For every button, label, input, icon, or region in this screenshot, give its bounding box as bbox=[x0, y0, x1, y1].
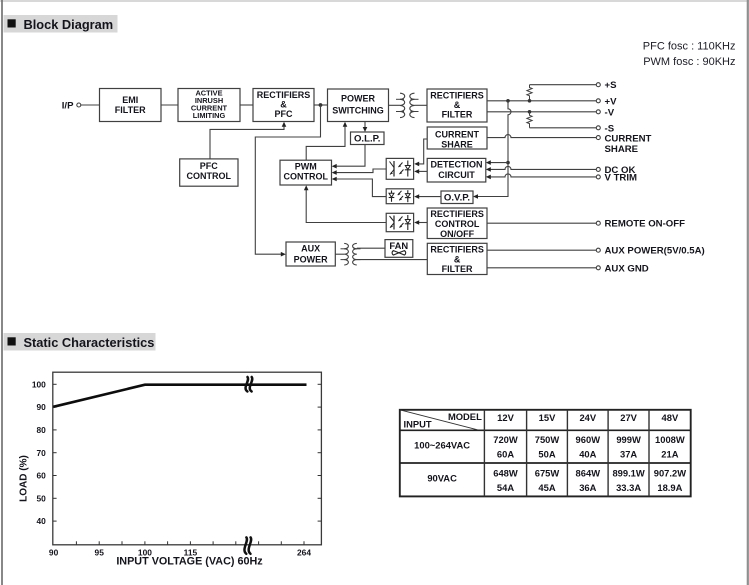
table grid bbox=[400, 410, 691, 497]
graph right border ticks bbox=[318, 384, 322, 521]
svg-text:60A: 60A bbox=[497, 449, 514, 460]
graph curve break mark bbox=[246, 377, 253, 391]
note PFC fosc bbox=[643, 41, 736, 53]
table header 27V bbox=[620, 412, 637, 423]
terminal AUX POWER bbox=[596, 246, 704, 257]
resistor +S sense bbox=[527, 85, 532, 101]
svg-text:RECTIFIERS: RECTIFIERS bbox=[430, 90, 484, 100]
terminal V TRIM bbox=[596, 173, 637, 184]
table row 90VAC bbox=[427, 467, 686, 492]
block aux RECTIFIERS & FILTER bbox=[427, 243, 487, 274]
svg-text:CONTROL: CONTROL bbox=[284, 171, 329, 181]
wire +V rail bbox=[487, 100, 596, 102]
graph x-axis ticks bbox=[76, 541, 304, 545]
svg-text:CONTROL: CONTROL bbox=[435, 219, 480, 229]
wire optocoupler U1 to PWM CONTROL (arrow left) bbox=[332, 169, 387, 175]
svg-text:&: & bbox=[454, 254, 461, 264]
section header: Block Diagram bbox=[4, 15, 118, 33]
svg-text:750W: 750W bbox=[535, 434, 560, 445]
svg-text:54A: 54A bbox=[497, 482, 514, 493]
svg-text:27V: 27V bbox=[620, 412, 637, 423]
svg-text:15V: 15V bbox=[539, 412, 556, 423]
resistor -S sense bbox=[527, 112, 532, 128]
svg-text:907.2W: 907.2W bbox=[654, 467, 686, 478]
svg-text:+V: +V bbox=[605, 96, 618, 107]
transformer T2 primary winding bbox=[341, 243, 349, 265]
block RECTIFIERS & PFC bbox=[253, 89, 314, 122]
wire REMOTE ON-OFF bbox=[487, 222, 596, 224]
svg-text:O.L.P.: O.L.P. bbox=[354, 134, 380, 145]
svg-text:-V: -V bbox=[605, 107, 615, 118]
terminal +V bbox=[596, 96, 617, 107]
section header: Static Characteristics bbox=[4, 333, 156, 351]
wire transformer T2 to FAN bbox=[357, 247, 385, 249]
table row 100-264VAC bbox=[414, 434, 685, 459]
wire sense bus vertical (with hop over -V) bbox=[473, 101, 511, 199]
junction +V/bus bbox=[506, 99, 510, 103]
table header 15V bbox=[539, 412, 556, 423]
block ACTIVE INRUSH CURRENT LIMITING bbox=[178, 88, 240, 121]
svg-text:FILTER: FILTER bbox=[442, 109, 473, 119]
svg-text:40A: 40A bbox=[579, 449, 596, 460]
wire transformer T2 to aux RECTIFIERS & FILTER bbox=[357, 259, 428, 261]
optocoupler U1 (feedback) bbox=[386, 158, 413, 179]
svg-text:960W: 960W bbox=[576, 434, 601, 445]
svg-text:+S: +S bbox=[605, 80, 618, 91]
svg-text:FILTER: FILTER bbox=[442, 264, 473, 274]
terminal DC OK bbox=[596, 165, 635, 176]
svg-text:1008W: 1008W bbox=[655, 434, 685, 445]
svg-text:SWITCHING: SWITCHING bbox=[332, 105, 384, 115]
junction +V/+S bbox=[528, 99, 532, 103]
wire AUX POWER to transformer T2 bbox=[335, 253, 344, 255]
svg-text:40: 40 bbox=[36, 516, 46, 526]
svg-text:LIMITING: LIMITING bbox=[193, 111, 226, 120]
table header 48V bbox=[662, 412, 679, 423]
wire DC OK output (arrow into DETECTION, hop over bus) bbox=[486, 166, 596, 171]
svg-text:FAN: FAN bbox=[389, 240, 408, 251]
wire PFC output node down to AUX POWER input bbox=[255, 105, 320, 257]
table header 24V bbox=[579, 412, 596, 423]
svg-text:90: 90 bbox=[49, 547, 59, 557]
svg-text:36A: 36A bbox=[579, 482, 596, 493]
transformer T1 primary winding bbox=[396, 93, 405, 117]
svg-text:80: 80 bbox=[36, 425, 46, 435]
wire RECTIFIERS CONTROL to optocoupler U3 (arrow left into opto) bbox=[414, 220, 427, 225]
svg-text:999W: 999W bbox=[616, 434, 641, 445]
svg-text:I/P: I/P bbox=[62, 100, 74, 111]
wire RECTIFIERS & PFC to POWER SWITCHING bbox=[314, 104, 328, 106]
junction node at PFC output bbox=[319, 103, 323, 107]
svg-text:SHARE: SHARE bbox=[441, 139, 473, 149]
terminal +S bbox=[596, 80, 617, 91]
block PWM CONTROL bbox=[280, 160, 332, 185]
transformer T1 secondary winding bbox=[410, 93, 419, 117]
wire PFC CONTROL to RECTIFIERS & PFC (feedback, arrow up) bbox=[210, 122, 286, 159]
svg-text:DETECTION: DETECTION bbox=[430, 160, 482, 170]
wire AUX POWER output bbox=[487, 249, 596, 251]
page left border bbox=[1, 0, 3, 585]
page top border bbox=[0, 0, 749, 2]
svg-text:&: & bbox=[280, 99, 287, 109]
svg-text:&: & bbox=[454, 100, 461, 110]
wire optocoupler U2 to PWM CONTROL (arrow left) bbox=[332, 177, 387, 197]
svg-text:48V: 48V bbox=[662, 412, 679, 423]
optocoupler U2 (OVP) bbox=[386, 189, 413, 204]
svg-text:EMI: EMI bbox=[122, 95, 138, 105]
page right border bbox=[747, 0, 749, 585]
wire I/P to EMI FILTER bbox=[81, 104, 100, 106]
optocoupler U3 (remote on-off) bbox=[386, 213, 413, 231]
wire +S line bbox=[530, 84, 597, 86]
block FAN with fan symbol bbox=[385, 240, 413, 258]
graph x-axis labels bbox=[49, 547, 311, 557]
svg-text:INPUT: INPUT bbox=[404, 419, 432, 430]
svg-text:Block Diagram: Block Diagram bbox=[24, 17, 114, 32]
graph y-axis ticks and labels bbox=[32, 379, 57, 526]
svg-text:CURRENT: CURRENT bbox=[605, 133, 652, 144]
wire POWER SWITCHING to transformer T1 bbox=[389, 104, 401, 106]
svg-text:SHARE: SHARE bbox=[605, 144, 639, 155]
svg-text:21A: 21A bbox=[661, 449, 678, 460]
wire POWER SWITCHING down to O.L.P. (arrow down) bbox=[363, 122, 368, 133]
svg-text:LOAD (%): LOAD (%) bbox=[19, 455, 30, 502]
svg-text:AUX GND: AUX GND bbox=[605, 263, 649, 274]
svg-text:ON/OFF: ON/OFF bbox=[440, 229, 474, 239]
wire PWM CONTROL to POWER SWITCHING (drive, arrow up) bbox=[306, 122, 347, 161]
block RECTIFIERS CONTROL ON/OFF bbox=[427, 208, 487, 239]
table header 12V bbox=[497, 412, 514, 423]
svg-text:675W: 675W bbox=[535, 467, 560, 478]
wire O.L.P. to PWM CONTROL (arrow left) bbox=[332, 145, 365, 169]
graph load curve bbox=[53, 385, 306, 407]
block PFC CONTROL bbox=[180, 159, 238, 186]
svg-text:CIRCUIT: CIRCUIT bbox=[438, 170, 475, 180]
terminal -S bbox=[596, 123, 614, 134]
svg-text:REMOTE ON-OFF: REMOTE ON-OFF bbox=[605, 219, 686, 230]
svg-text:POWER: POWER bbox=[341, 94, 376, 104]
svg-text:PWM fosc : 90KHz: PWM fosc : 90KHz bbox=[643, 56, 735, 68]
block O.L.P. bbox=[351, 132, 385, 145]
block CURRENT SHARE bbox=[427, 127, 487, 149]
svg-text:100: 100 bbox=[32, 379, 46, 389]
graph y-axis title LOAD (%) bbox=[19, 455, 30, 502]
junction bus/detection feed bbox=[506, 161, 510, 165]
svg-text:70: 70 bbox=[36, 448, 46, 458]
svg-text:FILTER: FILTER bbox=[115, 105, 146, 115]
wire CURRENT SHARE to optocoupler U1 (arrow left into opto) bbox=[414, 139, 427, 166]
wire ACTIVE INRUSH to RECTIFIERS & PFC bbox=[240, 104, 253, 106]
svg-text:100~264VAC: 100~264VAC bbox=[414, 439, 470, 450]
svg-text:PFC fosc : 110KHz: PFC fosc : 110KHz bbox=[643, 41, 736, 53]
svg-text:RECTIFIERS: RECTIFIERS bbox=[430, 245, 484, 255]
svg-text:95: 95 bbox=[95, 547, 105, 557]
svg-text:AUX: AUX bbox=[301, 244, 320, 254]
svg-text:60: 60 bbox=[36, 471, 46, 481]
wire optocoupler U3 to PWM CONTROL bottom (arrow up) bbox=[304, 185, 386, 222]
wire AUX GND bbox=[487, 267, 596, 269]
graph plot border bbox=[53, 372, 322, 545]
svg-text:AUX POWER(5V/0.5A): AUX POWER(5V/0.5A) bbox=[605, 246, 705, 257]
svg-text:V TRIM: V TRIM bbox=[605, 173, 638, 184]
terminal AUX GND bbox=[596, 263, 649, 274]
node I/P input terminal bbox=[62, 100, 81, 111]
svg-text:PFC: PFC bbox=[200, 161, 219, 171]
graph x-axis break mark bbox=[244, 537, 251, 553]
svg-text:RECTIFIERS: RECTIFIERS bbox=[430, 209, 484, 219]
svg-text:33.3A: 33.3A bbox=[616, 482, 641, 493]
block AUX POWER bbox=[286, 242, 335, 266]
svg-text:45A: 45A bbox=[538, 482, 555, 493]
block EMI FILTER bbox=[100, 89, 162, 122]
transformer T2 secondary winding bbox=[353, 243, 361, 265]
svg-text:90VAC: 90VAC bbox=[427, 473, 457, 484]
svg-text:PFC: PFC bbox=[275, 109, 294, 119]
terminal REMOTE ON-OFF bbox=[596, 219, 685, 230]
wire bus to DETECTION CIRCUIT (arrow left) bbox=[486, 160, 508, 165]
wire V TRIM output (arrow into DETECTION, hop over bus) bbox=[486, 174, 596, 179]
block DETECTION CIRCUIT bbox=[427, 158, 486, 182]
svg-text:90: 90 bbox=[36, 402, 46, 412]
svg-text:O.V.P.: O.V.P. bbox=[444, 193, 470, 204]
svg-text:264: 264 bbox=[297, 547, 311, 557]
svg-text:INPUT VOLTAGE (VAC) 60Hz: INPUT VOLTAGE (VAC) 60Hz bbox=[116, 556, 263, 568]
svg-text:12V: 12V bbox=[497, 412, 514, 423]
junction -V/-S bbox=[528, 110, 532, 114]
terminal CURRENT SHARE bbox=[596, 133, 651, 155]
svg-text:864W: 864W bbox=[576, 467, 601, 478]
svg-text:CURRENT: CURRENT bbox=[435, 129, 480, 139]
terminal -V bbox=[596, 107, 614, 118]
block POWER SWITCHING bbox=[328, 89, 389, 122]
block O.V.P. bbox=[441, 191, 473, 204]
svg-text:50A: 50A bbox=[538, 449, 555, 460]
svg-text:899.1W: 899.1W bbox=[612, 467, 644, 478]
wire CURRENT SHARE output bbox=[487, 135, 596, 138]
svg-text:Static Characteristics: Static Characteristics bbox=[24, 335, 155, 350]
svg-text:37A: 37A bbox=[620, 449, 637, 460]
wire EMI FILTER to ACTIVE INRUSH bbox=[161, 104, 178, 106]
wire O.V.P. to optocoupler U2 (arrow left into opto) bbox=[414, 194, 441, 199]
table header diagonal MODEL / INPUT bbox=[400, 410, 482, 430]
note PWM fosc bbox=[643, 56, 735, 68]
wire -S line bbox=[530, 127, 597, 129]
svg-text:50: 50 bbox=[36, 493, 46, 503]
svg-text:PWM: PWM bbox=[295, 161, 317, 171]
wire -V rail bbox=[487, 111, 596, 113]
svg-text:MODEL: MODEL bbox=[448, 411, 482, 422]
svg-text:POWER: POWER bbox=[294, 254, 329, 264]
svg-text:18.9A: 18.9A bbox=[657, 482, 682, 493]
block RECTIFIERS & FILTER (main output) bbox=[427, 89, 487, 122]
svg-text:CONTROL: CONTROL bbox=[187, 171, 232, 181]
svg-text:24V: 24V bbox=[579, 412, 596, 423]
wire transformer T1 to RECTIFIERS & FILTER bbox=[415, 104, 428, 106]
graph x-axis title bbox=[116, 556, 263, 568]
svg-text:648W: 648W bbox=[493, 467, 518, 478]
svg-text:720W: 720W bbox=[493, 434, 518, 445]
wire DETECTION CIRCUIT to optocoupler U1 (arrow left into opto) bbox=[414, 169, 427, 174]
